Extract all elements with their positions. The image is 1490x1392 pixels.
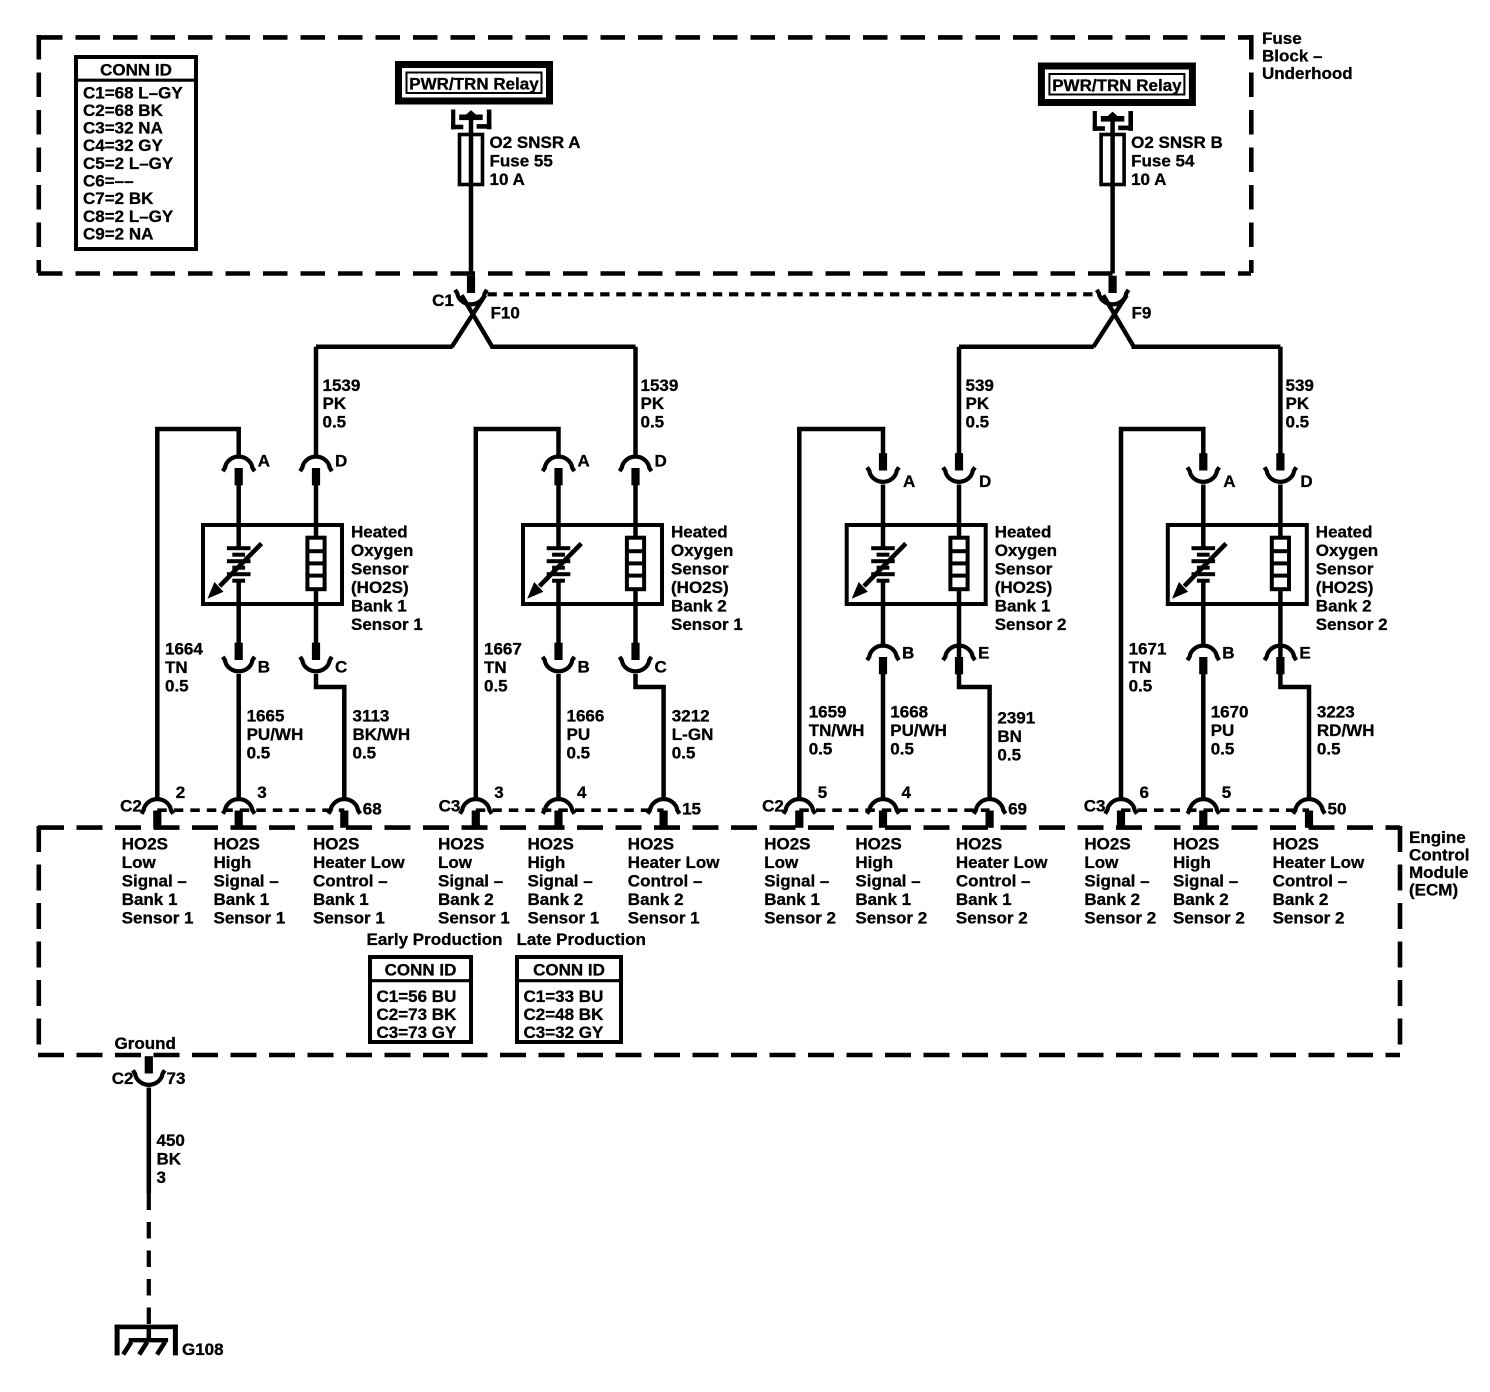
svg-text:E: E — [978, 644, 989, 663]
ECM pin 5 (C2) — [783, 799, 815, 828]
svg-text:C2=48 BK: C2=48 BK — [524, 1005, 605, 1024]
svg-text:D: D — [335, 452, 347, 471]
svg-text:HO2S: HO2S — [956, 835, 1002, 854]
connector pin C HO2S Bank 2 Sensor 1 — [620, 643, 652, 672]
wire D into heater — [1278, 485, 1283, 539]
wire sensing element to B — [236, 581, 241, 644]
svg-text:D: D — [1300, 472, 1312, 491]
svg-text:C2=73 BK: C2=73 BK — [377, 1005, 458, 1024]
wire A into sensor — [236, 485, 241, 549]
svg-text:Oxygen: Oxygen — [1316, 541, 1378, 560]
svg-text:Sensor 2: Sensor 2 — [764, 909, 836, 928]
svg-text:A: A — [903, 472, 915, 491]
wire branch F9 right — [1132, 345, 1281, 350]
svg-text:C2: C2 — [112, 1069, 134, 1088]
connector pin E HO2S Bank 2 Sensor 2 — [1265, 646, 1297, 675]
svg-text:Control –: Control – — [628, 872, 703, 891]
svg-text:0.5: 0.5 — [809, 739, 833, 758]
svg-text:Signal –: Signal – — [214, 872, 279, 891]
wire label 1664 — [165, 640, 203, 696]
svg-text:1671: 1671 — [1129, 640, 1167, 659]
svg-text:TN: TN — [1129, 658, 1152, 677]
svg-text:Heated: Heated — [671, 523, 728, 542]
fuse symbol right — [1101, 135, 1124, 185]
svg-text:CONN ID: CONN ID — [100, 61, 172, 80]
svg-text:HO2S: HO2S — [438, 835, 484, 854]
svg-text:Heater Low: Heater Low — [628, 853, 720, 872]
svg-text:Bank 1: Bank 1 — [956, 890, 1012, 909]
svg-text:0.5: 0.5 — [1211, 739, 1235, 758]
PWR/TRN relay box right — [1041, 66, 1192, 103]
relay contact symbol left — [451, 110, 491, 130]
svg-text:BN: BN — [997, 727, 1022, 746]
svg-text:PU: PU — [1211, 721, 1235, 740]
ECM ground pin C2-73 — [133, 1056, 165, 1085]
svg-text:1539: 1539 — [323, 376, 361, 395]
wire sensing element to B — [1201, 581, 1206, 645]
svg-text:0.5: 0.5 — [1317, 739, 1341, 758]
svg-text:0.5: 0.5 — [641, 412, 665, 431]
connector pin D HO2S Bank 2 Sensor 1 — [620, 457, 652, 486]
svg-text:HO2S: HO2S — [855, 835, 901, 854]
svg-text:Sensor: Sensor — [995, 560, 1053, 579]
svg-text:Signal –: Signal – — [438, 872, 503, 891]
svg-text:F9: F9 — [1132, 304, 1152, 323]
svg-text:Fuse: Fuse — [1262, 29, 1302, 48]
svg-text:Low: Low — [1084, 853, 1119, 872]
wire D into heater — [957, 485, 962, 539]
wire label 1539 PK — [641, 376, 679, 431]
sensing element (variable source) HO2S Bank 2 Sensor 1 — [527, 544, 581, 599]
svg-text:Bank 2: Bank 2 — [628, 890, 684, 909]
svg-text:4: 4 — [902, 783, 912, 802]
wire heater low control 2391 — [959, 674, 990, 798]
CONN ID table fuse block — [74, 57, 198, 249]
ECM pin 6 (C3) — [1105, 799, 1137, 828]
svg-text:HO2S: HO2S — [628, 835, 674, 854]
svg-text:3113: 3113 — [353, 707, 390, 726]
svg-text:TN/WH: TN/WH — [809, 721, 865, 740]
svg-text:O2 SNSR A: O2 SNSR A — [490, 133, 581, 152]
svg-text:C3=73 GY: C3=73 GY — [377, 1023, 458, 1042]
wire 539/1539 PK feed HO2S Bank 2 Sensor 1 — [633, 347, 638, 455]
svg-text:Bank 2: Bank 2 — [1173, 890, 1229, 909]
wire D into heater — [633, 485, 638, 539]
svg-text:(HO2S): (HO2S) — [351, 578, 409, 597]
svg-text:Heated: Heated — [351, 523, 408, 542]
svg-text:BK: BK — [157, 1149, 182, 1168]
svg-text:Control –: Control – — [313, 872, 388, 891]
svg-text:C5=2 L–GY: C5=2 L–GY — [83, 154, 174, 173]
svg-text:0.5: 0.5 — [353, 743, 377, 762]
label HO2S low signal bank 2 sensor 2 — [1084, 835, 1156, 928]
svg-text:Signal –: Signal – — [764, 872, 829, 891]
svg-text:High: High — [528, 853, 566, 872]
svg-text:1670: 1670 — [1211, 703, 1249, 722]
label HO2S heater low control bank 2 sensor 1 — [628, 835, 720, 928]
label HO2S low signal bank 2 sensor 1 — [438, 835, 510, 928]
svg-text:D: D — [655, 452, 667, 471]
wire 539/1539 PK feed HO2S Bank 1 Sensor 2 — [957, 347, 962, 454]
label HO2S high signal bank 1 sensor 2 — [855, 835, 927, 928]
dashed connector line C3 group — [476, 808, 664, 812]
svg-text:C4=32 GY: C4=32 GY — [83, 136, 164, 155]
ECM pin 5 — [1187, 799, 1219, 828]
svg-text:Sensor: Sensor — [1316, 560, 1374, 579]
label HO2S low signal bank 1 sensor 1 — [122, 835, 194, 928]
svg-text:Bank 1: Bank 1 — [122, 890, 178, 909]
svg-text:15: 15 — [682, 800, 701, 819]
svg-text:Bank 1: Bank 1 — [313, 890, 369, 909]
svg-text:Oxygen: Oxygen — [671, 541, 733, 560]
svg-text:PU/WH: PU/WH — [890, 721, 947, 740]
svg-text:High: High — [855, 853, 893, 872]
ECM pin 4 — [867, 799, 899, 828]
svg-text:HO2S: HO2S — [214, 835, 260, 854]
svg-text:Bank 2: Bank 2 — [1084, 890, 1140, 909]
svg-text:1664: 1664 — [165, 640, 203, 659]
svg-text:C1=56 BU: C1=56 BU — [377, 987, 457, 1006]
wire branch F9 left — [959, 345, 1094, 350]
ECM pin 69 — [974, 799, 1006, 828]
svg-text:HO2S: HO2S — [122, 835, 168, 854]
svg-text:Sensor 1: Sensor 1 — [671, 615, 743, 634]
wire HO2S low signal loop Bank 2 Sensor 2 — [1121, 429, 1203, 798]
wire label 1539 PK — [323, 376, 361, 431]
connector pin B HO2S Bank 2 Sensor 1 — [543, 643, 575, 672]
ECM pin 4 — [543, 799, 575, 828]
svg-text:1659: 1659 — [809, 703, 847, 722]
label HO2S heater low control bank 2 sensor 2 — [1273, 835, 1365, 928]
wire heater to C/E — [957, 589, 962, 658]
heater element HO2S Bank 1 Sensor 2 — [950, 538, 967, 590]
wire label 1667 — [484, 640, 522, 696]
svg-text:E: E — [1299, 644, 1310, 663]
wire label 1659 — [809, 703, 865, 759]
svg-text:C2: C2 — [120, 797, 142, 816]
svg-text:D: D — [979, 472, 991, 491]
wire label 3223 — [1317, 703, 1375, 759]
wire heater low control 3223 — [1280, 674, 1309, 798]
svg-text:Sensor: Sensor — [671, 560, 729, 579]
label heated oxygen sensor Bank 2 Sensor 1 — [671, 523, 743, 635]
svg-text:Heater Low: Heater Low — [313, 853, 405, 872]
svg-text:Bank 1: Bank 1 — [214, 890, 270, 909]
svg-text:3: 3 — [494, 783, 503, 802]
svg-text:(HO2S): (HO2S) — [671, 578, 729, 597]
svg-text:PK: PK — [966, 394, 990, 413]
svg-text:Signal –: Signal – — [855, 872, 920, 891]
svg-text:Ground: Ground — [115, 1034, 176, 1053]
svg-text:PWR/TRN Relay: PWR/TRN Relay — [409, 75, 539, 94]
svg-text:0.5: 0.5 — [484, 676, 508, 695]
svg-text:3212: 3212 — [672, 707, 710, 726]
wire heater to C/E — [633, 589, 638, 644]
svg-text:10 A: 10 A — [1131, 170, 1166, 189]
svg-text:73: 73 — [167, 1069, 186, 1088]
connector pin B HO2S Bank 1 Sensor 2 — [867, 646, 899, 675]
wire label 539 PK — [1286, 376, 1314, 431]
svg-text:0.5: 0.5 — [1129, 676, 1153, 695]
wire high signal 1666 — [556, 674, 561, 798]
connector C1 / splice F10 — [452, 276, 492, 347]
dotted connector line C1 to F9 — [488, 292, 1101, 296]
svg-text:Block –: Block – — [1262, 47, 1322, 66]
svg-text:High: High — [1173, 853, 1211, 872]
ECM pin 50 — [1293, 799, 1325, 828]
svg-text:(ECM): (ECM) — [1409, 881, 1458, 900]
svg-text:Sensor 1: Sensor 1 — [528, 909, 600, 928]
svg-text:Heater Low: Heater Low — [1273, 853, 1365, 872]
label heated oxygen sensor Bank 1 Sensor 1 — [351, 523, 423, 635]
svg-text:F10: F10 — [491, 304, 520, 323]
svg-text:450: 450 — [157, 1131, 185, 1150]
wire A into sensor — [1201, 485, 1206, 549]
wire label 3212 — [672, 707, 714, 763]
svg-text:C2: C2 — [762, 797, 784, 816]
wire label 1671 — [1129, 640, 1167, 696]
svg-text:Signal –: Signal – — [122, 872, 187, 891]
svg-text:TN: TN — [165, 658, 188, 677]
svg-text:Signal –: Signal – — [528, 872, 593, 891]
svg-text:3223: 3223 — [1317, 703, 1355, 722]
label HO2S heater low control bank 1 sensor 1 — [313, 835, 405, 928]
svg-text:0.5: 0.5 — [567, 743, 591, 762]
svg-text:1667: 1667 — [484, 640, 522, 659]
svg-text:Bank 1: Bank 1 — [764, 890, 820, 909]
svg-text:Sensor 2: Sensor 2 — [855, 909, 927, 928]
wire heater low control 3113 — [316, 674, 344, 798]
svg-text:539: 539 — [1286, 376, 1314, 395]
svg-text:Sensor 1: Sensor 1 — [438, 909, 510, 928]
wire label 1668 — [890, 703, 947, 759]
wire branch F10 right — [491, 345, 636, 350]
svg-text:1666: 1666 — [567, 707, 605, 726]
svg-text:CONN ID: CONN ID — [533, 961, 605, 980]
svg-text:Control: Control — [1409, 846, 1469, 865]
svg-text:Bank 2: Bank 2 — [671, 597, 727, 616]
svg-text:C6=––: C6=–– — [83, 172, 134, 191]
svg-text:C1=68 L–GY: C1=68 L–GY — [83, 83, 183, 102]
heater element HO2S Bank 2 Sensor 1 — [627, 538, 644, 590]
svg-text:Module: Module — [1409, 863, 1469, 882]
svg-text:Fuse 54: Fuse 54 — [1131, 151, 1195, 170]
ECM pin 68 — [328, 799, 360, 828]
svg-text:2: 2 — [176, 783, 185, 802]
svg-text:Signal –: Signal – — [1173, 872, 1238, 891]
svg-text:HO2S: HO2S — [764, 835, 810, 854]
ECM pin 15 — [648, 799, 680, 828]
svg-text:B: B — [902, 644, 914, 663]
connector pin E HO2S Bank 1 Sensor 2 — [943, 646, 975, 675]
label HO2S high signal bank 2 sensor 1 — [528, 835, 600, 928]
fuse label right — [1131, 133, 1223, 189]
svg-text:C1=33 BU: C1=33 BU — [524, 987, 604, 1006]
heated oxygen sensor box HO2S Bank 1 Sensor 2 — [847, 525, 986, 604]
wire 450 BK solid — [147, 1088, 152, 1194]
connector pin C HO2S Bank 1 Sensor 1 — [300, 643, 332, 672]
svg-text:PK: PK — [1286, 394, 1310, 413]
wire 539/1539 PK feed HO2S Bank 1 Sensor 1 — [314, 347, 319, 455]
svg-text:G108: G108 — [182, 1340, 224, 1359]
svg-text:HO2S: HO2S — [1173, 835, 1219, 854]
svg-text:Signal –: Signal – — [1084, 872, 1149, 891]
svg-text:C3=32 NA: C3=32 NA — [83, 119, 163, 138]
svg-text:539: 539 — [966, 376, 994, 395]
wire label 2391 — [997, 709, 1035, 765]
svg-text:Heated: Heated — [1316, 523, 1373, 542]
svg-text:Low: Low — [122, 853, 157, 872]
label HO2S low signal bank 1 sensor 2 — [764, 835, 836, 928]
svg-text:Sensor 1: Sensor 1 — [313, 909, 385, 928]
svg-text:C3=32 GY: C3=32 GY — [524, 1023, 605, 1042]
svg-text:HO2S: HO2S — [313, 835, 359, 854]
svg-text:O2 SNSR B: O2 SNSR B — [1131, 133, 1223, 152]
svg-text:PK: PK — [641, 394, 665, 413]
connector pin A HO2S Bank 1 Sensor 1 — [223, 457, 255, 486]
label engine control module ECM — [1409, 828, 1469, 900]
svg-text:Bank 1: Bank 1 — [995, 597, 1051, 616]
label HO2S heater low control bank 1 sensor 2 — [956, 835, 1048, 928]
svg-text:3: 3 — [257, 783, 266, 802]
svg-text:Oxygen: Oxygen — [995, 541, 1057, 560]
wire label 450 BK 3 — [157, 1131, 185, 1187]
ECM pin 3 — [223, 799, 255, 828]
svg-text:PU: PU — [567, 725, 591, 744]
CONN ID table late production — [515, 957, 623, 1042]
connector pin A HO2S Bank 2 Sensor 2 — [1187, 453, 1219, 482]
svg-text:Bank 1: Bank 1 — [351, 597, 407, 616]
wire high signal 1665 — [236, 674, 241, 798]
svg-text:PU/WH: PU/WH — [247, 725, 304, 744]
svg-text:6: 6 — [1140, 783, 1149, 802]
heated oxygen sensor box HO2S Bank 2 Sensor 2 — [1168, 525, 1307, 604]
svg-text:Bank 2: Bank 2 — [528, 890, 584, 909]
ground symbol G108 — [115, 1325, 178, 1356]
svg-text:1665: 1665 — [247, 707, 285, 726]
svg-text:B: B — [1222, 644, 1234, 663]
wire branch F10 left — [316, 345, 453, 350]
svg-text:Sensor 2: Sensor 2 — [1316, 615, 1388, 634]
wire label 1666 — [567, 707, 605, 763]
svg-text:1539: 1539 — [641, 376, 679, 395]
label heated oxygen sensor Bank 1 Sensor 2 — [995, 523, 1067, 635]
svg-text:Sensor 2: Sensor 2 — [1273, 909, 1345, 928]
svg-text:C2=68 BK: C2=68 BK — [83, 101, 164, 120]
svg-text:HO2S: HO2S — [1273, 835, 1319, 854]
sensing element (variable source) HO2S Bank 1 Sensor 1 — [207, 544, 261, 599]
wire HO2S low signal loop Bank 2 Sensor 1 — [476, 429, 559, 798]
svg-text:Control –: Control – — [956, 872, 1031, 891]
connector / splice F9 — [1093, 276, 1133, 347]
wire A into sensor — [556, 485, 561, 549]
fuse symbol left — [460, 135, 483, 185]
ECM pin 2 (C2) — [141, 799, 173, 828]
wire HO2S low signal loop Bank 1 Sensor 1 — [157, 429, 238, 798]
svg-text:Sensor 1: Sensor 1 — [214, 909, 286, 928]
connector pin D HO2S Bank 1 Sensor 2 — [943, 453, 975, 482]
relay contact symbol right — [1093, 111, 1133, 131]
svg-text:Bank 1: Bank 1 — [855, 890, 911, 909]
svg-text:A: A — [578, 452, 590, 471]
svg-text:0.5: 0.5 — [890, 739, 914, 758]
svg-text:0.5: 0.5 — [1286, 412, 1310, 431]
svg-text:Bank 2: Bank 2 — [1273, 890, 1329, 909]
svg-text:0.5: 0.5 — [165, 676, 189, 695]
wire high signal 1670 — [1201, 674, 1206, 798]
svg-text:High: High — [214, 853, 252, 872]
svg-text:C: C — [655, 658, 667, 677]
svg-text:0.5: 0.5 — [966, 412, 990, 431]
svg-text:B: B — [578, 658, 590, 677]
svg-text:Sensor 1: Sensor 1 — [351, 615, 423, 634]
wire label 539 PK — [966, 376, 994, 431]
svg-text:A: A — [1223, 472, 1235, 491]
svg-text:1668: 1668 — [890, 703, 928, 722]
svg-text:C7=2 BK: C7=2 BK — [83, 189, 154, 208]
svg-text:Sensor 2: Sensor 2 — [956, 909, 1028, 928]
svg-text:Engine: Engine — [1409, 828, 1466, 847]
svg-text:Heated: Heated — [995, 523, 1052, 542]
wire A into sensor — [881, 485, 886, 549]
wire sensing element to B — [881, 581, 886, 645]
svg-text:10 A: 10 A — [490, 170, 525, 189]
svg-text:Sensor 1: Sensor 1 — [122, 909, 194, 928]
heater element HO2S Bank 1 Sensor 1 — [307, 538, 324, 590]
svg-text:Sensor 2: Sensor 2 — [1084, 909, 1156, 928]
svg-text:BK/WH: BK/WH — [353, 725, 411, 744]
svg-text:3: 3 — [157, 1168, 166, 1187]
wire HO2S low signal loop Bank 1 Sensor 2 — [799, 429, 883, 798]
svg-text:Late Production: Late Production — [517, 930, 646, 949]
wire sensing element to B — [556, 581, 561, 644]
sensing element (variable source) HO2S Bank 2 Sensor 2 — [1172, 544, 1226, 599]
connector pin D HO2S Bank 1 Sensor 1 — [300, 457, 332, 486]
svg-text:Oxygen: Oxygen — [351, 541, 413, 560]
svg-text:0.5: 0.5 — [997, 745, 1021, 764]
wire label 1665 — [247, 707, 304, 763]
svg-text:HO2S: HO2S — [528, 835, 574, 854]
wire label 3113 — [353, 707, 411, 763]
wire heater low control 3212 — [636, 674, 664, 798]
wire relay to fuse block edge right — [1110, 120, 1115, 274]
wire relay to fuse block edge left — [469, 118, 474, 274]
svg-text:C8=2 L–GY: C8=2 L–GY — [83, 207, 174, 226]
svg-text:50: 50 — [1328, 800, 1347, 819]
wire D into heater — [314, 485, 319, 539]
wire label 1670 — [1211, 703, 1249, 759]
svg-text:C: C — [335, 658, 347, 677]
svg-text:C9=2 NA: C9=2 NA — [83, 225, 153, 244]
wire high signal 1668 — [881, 674, 886, 798]
svg-text:PK: PK — [323, 394, 347, 413]
svg-text:Underhood: Underhood — [1262, 64, 1353, 83]
fuse label left — [490, 133, 581, 189]
svg-text:68: 68 — [363, 800, 382, 819]
svg-text:HO2S: HO2S — [1084, 835, 1130, 854]
svg-text:Sensor 2: Sensor 2 — [1173, 909, 1245, 928]
svg-text:69: 69 — [1008, 800, 1027, 819]
svg-text:2391: 2391 — [997, 709, 1035, 728]
svg-text:C3: C3 — [1084, 797, 1106, 816]
dashed connector line C2 group — [157, 808, 344, 812]
svg-text:CONN ID: CONN ID — [385, 961, 457, 980]
svg-text:0.5: 0.5 — [323, 412, 347, 431]
svg-text:TN: TN — [484, 658, 507, 677]
wire heater to C/E — [314, 589, 319, 644]
svg-text:5: 5 — [1222, 783, 1231, 802]
ECM pin 3 (C3) — [460, 799, 492, 828]
